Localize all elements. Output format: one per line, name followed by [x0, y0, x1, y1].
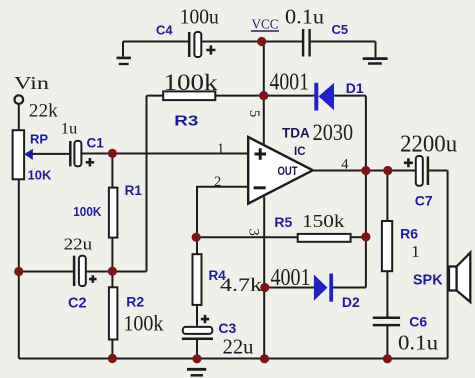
svg-text:SPK: SPK	[413, 273, 443, 289]
svg-text:4: 4	[341, 157, 349, 173]
svg-text:TDA: TDA	[282, 126, 310, 141]
svg-text:0.1u: 0.1u	[285, 5, 325, 29]
svg-text:1: 1	[217, 141, 224, 157]
svg-text:R1: R1	[125, 183, 143, 198]
svg-text:C1: C1	[87, 135, 105, 150]
svg-text:10K: 10K	[28, 168, 52, 183]
svg-text:2200u: 2200u	[400, 132, 457, 158]
svg-text:IC: IC	[294, 146, 306, 158]
svg-text:C3: C3	[218, 320, 236, 336]
svg-text:2: 2	[214, 174, 221, 190]
svg-text:R6: R6	[400, 225, 418, 241]
svg-text:4001: 4001	[271, 265, 311, 291]
svg-text:1u: 1u	[61, 121, 78, 138]
svg-text:C4: C4	[156, 23, 173, 38]
svg-text:Vin: Vin	[14, 73, 49, 93]
svg-text:100u: 100u	[180, 5, 219, 29]
svg-text:22u: 22u	[223, 335, 254, 359]
svg-text:C2: C2	[68, 296, 87, 312]
svg-text:100k: 100k	[123, 311, 163, 336]
svg-text:4001: 4001	[270, 69, 310, 95]
svg-text:R5: R5	[274, 214, 292, 230]
svg-text:3: 3	[246, 228, 262, 236]
svg-text:OUT: OUT	[278, 164, 299, 178]
svg-text:100k: 100k	[164, 70, 219, 95]
svg-text:5: 5	[246, 110, 262, 118]
svg-text:100K: 100K	[73, 204, 102, 219]
svg-text:150k: 150k	[302, 211, 345, 231]
svg-text:22u: 22u	[64, 235, 93, 254]
svg-text:RP: RP	[30, 132, 48, 147]
svg-text:1: 1	[411, 242, 420, 261]
svg-text:22k: 22k	[29, 101, 59, 122]
svg-text:C7: C7	[415, 193, 433, 209]
svg-text:D2: D2	[342, 294, 360, 310]
svg-text:R2: R2	[126, 294, 144, 310]
svg-text:C6: C6	[409, 314, 427, 330]
svg-text:C5: C5	[332, 22, 349, 37]
svg-text:D1: D1	[346, 80, 364, 96]
svg-text:2030: 2030	[313, 120, 354, 146]
svg-text:R4: R4	[209, 268, 227, 283]
svg-text:4.7k: 4.7k	[220, 275, 263, 296]
svg-text:0.1u: 0.1u	[398, 331, 439, 355]
svg-text:R3: R3	[174, 113, 198, 130]
